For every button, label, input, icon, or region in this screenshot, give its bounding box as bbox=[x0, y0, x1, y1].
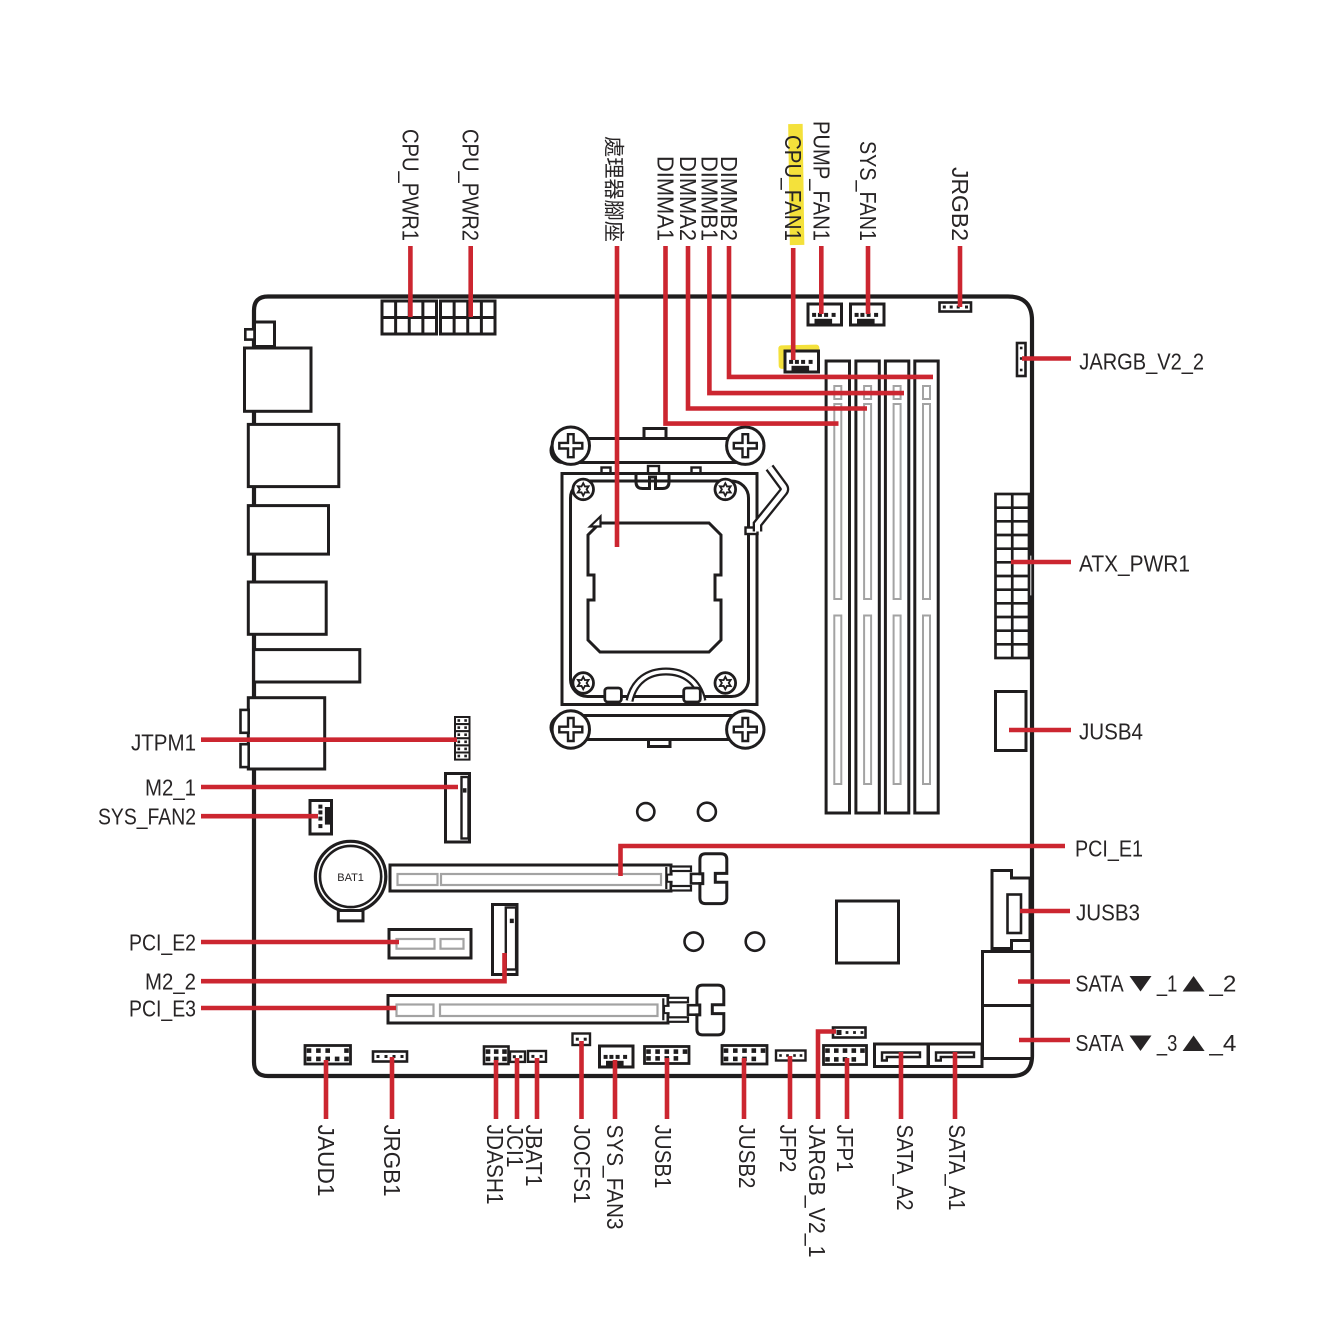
svg-text:JBAT1: JBAT1 bbox=[521, 1125, 547, 1187]
svg-text:JTPM1: JTPM1 bbox=[131, 730, 196, 756]
connector CPU_PWR2 (8-pin) bbox=[441, 301, 496, 334]
connector JUSB3 bbox=[992, 871, 1030, 949]
connector JRGB1 bbox=[373, 1052, 407, 1062]
svg-text:DIMMA1: DIMMA1 bbox=[653, 156, 679, 241]
svg-text:M2_1: M2_1 bbox=[145, 775, 196, 801]
svg-text:CPU_PWR2: CPU_PWR2 bbox=[458, 129, 484, 241]
DIMM slot DIMMA2 bbox=[856, 361, 879, 813]
PCIe slot PCI_E3 bbox=[388, 985, 724, 1035]
IO port D bbox=[248, 582, 326, 634]
chipset square bbox=[837, 901, 899, 963]
connector JFP2 bbox=[776, 1051, 806, 1061]
PCIe slot PCI_E1 bbox=[390, 854, 727, 904]
connector PUMP_FAN1 bbox=[808, 304, 842, 325]
connector JBAT1 bbox=[528, 1051, 546, 1062]
leader lines right bbox=[1022, 356, 1071, 361]
svg-text:JUSB3: JUSB3 bbox=[1076, 900, 1140, 926]
connector SYS_FAN3 bbox=[600, 1046, 634, 1067]
connector JARGB_V2_1 bbox=[833, 1028, 866, 1038]
svg-text:JOCFS1: JOCFS1 bbox=[569, 1125, 595, 1204]
svg-text:_3: _3 bbox=[1156, 1030, 1177, 1056]
PCIe slot PCI_E2 bbox=[389, 930, 471, 959]
svg-text:CPU_PWR1: CPU_PWR1 bbox=[397, 129, 423, 241]
svg-text:DIMMB2: DIMMB2 bbox=[716, 156, 742, 241]
svg-text:SYS_FAN2: SYS_FAN2 bbox=[98, 804, 196, 830]
pin header JTPM1 bbox=[455, 717, 470, 760]
svg-text:CPU_FAN1: CPU_FAN1 bbox=[780, 135, 806, 241]
connector JRGB2 bbox=[940, 303, 972, 312]
svg-text:JARGB_V2_1: JARGB_V2_1 bbox=[804, 1125, 830, 1258]
leader lines bottom bbox=[324, 1060, 329, 1119]
connector CPU_FAN1 bbox=[785, 351, 819, 372]
DIMM slot DIMMB1 bbox=[885, 361, 908, 813]
svg-text:PCI_E2: PCI_E2 bbox=[129, 930, 196, 956]
IO audio block bbox=[241, 698, 325, 769]
svg-text:JRGB2: JRGB2 bbox=[947, 167, 973, 241]
connector SYS_FAN2 bbox=[310, 801, 332, 835]
battery BAT1 bbox=[315, 841, 385, 921]
svg-text:JFP2: JFP2 bbox=[775, 1125, 801, 1173]
svg-text:JAUD1: JAUD1 bbox=[313, 1125, 339, 1197]
connector CPU_PWR1 (8-pin) bbox=[382, 301, 437, 334]
svg-text:JRGB1: JRGB1 bbox=[379, 1125, 405, 1197]
label CPU socket (CJK) bbox=[605, 137, 625, 241]
connector SATA 3/4 bbox=[983, 1006, 1033, 1059]
connector SATA_A2 bbox=[875, 1044, 929, 1067]
highlight CPU_FAN1 connector bbox=[778, 345, 819, 369]
svg-text:PCI_E3: PCI_E3 bbox=[129, 996, 196, 1022]
svg-text:JUSB1: JUSB1 bbox=[650, 1125, 676, 1189]
svg-text:SYS_FAN3: SYS_FAN3 bbox=[602, 1125, 628, 1230]
IO stub top-left bbox=[245, 322, 274, 347]
connector ATX_PWR1 (24-pin) bbox=[996, 494, 1033, 658]
svg-text:SATA_A1: SATA_A1 bbox=[944, 1125, 970, 1211]
highlight CPU_FAN1 label bbox=[788, 124, 804, 245]
svg-text:JUSB4: JUSB4 bbox=[1079, 719, 1143, 745]
svg-text:PCI_E1: PCI_E1 bbox=[1075, 836, 1143, 862]
svg-text:BAT1: BAT1 bbox=[337, 872, 364, 884]
pin header JDASH1 bbox=[484, 1047, 509, 1065]
leader lines top bbox=[408, 246, 413, 317]
svg-text:JUSB2: JUSB2 bbox=[734, 1125, 760, 1189]
motherboard outline bbox=[254, 297, 1032, 1077]
leader lines left bbox=[201, 737, 457, 742]
IO port C bbox=[248, 506, 328, 554]
svg-text:JFP1: JFP1 bbox=[832, 1125, 858, 1173]
M.2 slot M2_2 bbox=[493, 905, 518, 975]
svg-text:SATA: SATA bbox=[1075, 1030, 1124, 1056]
DIMM slot DIMMB2 bbox=[915, 361, 938, 813]
connector JCI1 bbox=[510, 1052, 525, 1062]
svg-text:SATA: SATA bbox=[1075, 971, 1124, 997]
pin header JUSB1 bbox=[645, 1047, 690, 1064]
connector SATA_A1 bbox=[929, 1044, 983, 1067]
svg-text:_4: _4 bbox=[1208, 1030, 1236, 1056]
IO port A bbox=[245, 348, 312, 411]
pin header JAUD1 bbox=[305, 1046, 351, 1065]
mounting holes bbox=[637, 803, 764, 951]
svg-text:_1: _1 bbox=[1156, 971, 1177, 997]
svg-text:_2: _2 bbox=[1208, 971, 1236, 997]
label SATA 3 4 bbox=[1075, 1030, 1236, 1056]
connector SATA 1/2 bbox=[983, 952, 1033, 1006]
connector JUSB4 bbox=[996, 692, 1027, 751]
pin header JUSB2 bbox=[722, 1046, 767, 1065]
svg-text:ATX_PWR1: ATX_PWR1 bbox=[1079, 551, 1190, 577]
M.2 slot M2_1 bbox=[446, 774, 470, 843]
connector JOCFS1 bbox=[573, 1034, 591, 1046]
CPU socket assembly bbox=[551, 427, 784, 748]
IO port E bbox=[254, 650, 360, 682]
pin header JFP1 bbox=[824, 1046, 867, 1065]
connector SYS_FAN1 bbox=[851, 304, 885, 325]
svg-text:M2_2: M2_2 bbox=[145, 969, 196, 995]
svg-text:SYS_FAN1: SYS_FAN1 bbox=[855, 141, 881, 241]
svg-text:JARGB_V2_2: JARGB_V2_2 bbox=[1079, 349, 1204, 375]
connector JARGB_V2_2 bbox=[1017, 343, 1026, 376]
DIMM slot DIMMA1 bbox=[826, 361, 849, 813]
svg-text:SATA_A2: SATA_A2 bbox=[892, 1125, 918, 1211]
svg-text:PUMP_FAN1: PUMP_FAN1 bbox=[808, 121, 834, 241]
label SATA 1 2 bbox=[1075, 971, 1236, 997]
IO port B bbox=[248, 424, 338, 486]
